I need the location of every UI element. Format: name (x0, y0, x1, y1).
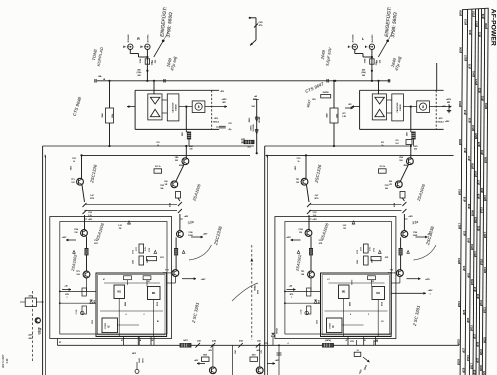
wire output tr outer into module (399, 277, 401, 284)
junction input column at bus (371, 80, 373, 82)
svg-text:2829: 2829 (457, 359, 461, 365)
svg-text:+45V: +45V (28, 333, 34, 336)
resistor 3906 left (202, 355, 210, 362)
label bus wire tag (471, 163, 475, 169)
label bus wire tag (457, 258, 461, 264)
fusible resistor bus a (195, 343, 200, 348)
svg-text:B1: B1 (157, 321, 159, 323)
junction feed at bus (377, 80, 379, 82)
annotation BNS UNIT script (1, 354, 9, 368)
label bus wire tag (477, 193, 481, 198)
svg-text:1701: 1701 (72, 158, 76, 160)
label bus wire tag (467, 203, 471, 208)
annotation pointer line (164, 32, 169, 40)
svg-text:3819: 3819 (457, 258, 461, 264)
svg-text:1341: 1341 (234, 350, 237, 354)
svg-text:+45V: +45V (88, 218, 93, 221)
diode D905 1S1588 (251, 117, 259, 132)
label bus wire tag (462, 309, 466, 314)
wire vas to pre (401, 165, 409, 181)
svg-text:M1: M1 (117, 290, 121, 294)
svg-text:1k: 1k (73, 161, 75, 163)
label bus wire tag (480, 95, 484, 100)
wire module internal h-bus (100, 310, 163, 312)
cascode stage box (392, 94, 404, 121)
label bus wire tag (471, 71, 475, 77)
junction vas at y146 (185, 145, 187, 147)
wire box feed b (59, 302, 96, 304)
svg-text:2809: 2809 (458, 139, 462, 145)
label bus wire tag (475, 21, 479, 27)
wire box feed a (284, 291, 321, 293)
label bus wire tag (473, 251, 477, 257)
junction drop right (259, 344, 261, 346)
svg-text:2829: 2829 (482, 371, 486, 375)
svg-text:150: 150 (74, 232, 77, 234)
svg-text:+45V: +45V (221, 98, 227, 101)
svg-text:OT101: OT101 (330, 323, 332, 329)
wire bus line 2 (465, 9, 468, 375)
power module M101 box (96, 273, 167, 337)
capacitor right channel extra (327, 79, 328, 82)
resistor 2957 1k below ic (407, 129, 416, 145)
label GTS TW (38, 327, 42, 335)
junction input column mid (371, 70, 373, 72)
ground triangle inner (297, 250, 300, 253)
arrow +45V below output (182, 278, 206, 281)
svg-text:C-102: C-102 (76, 310, 78, 315)
wire link y204 (85, 203, 178, 205)
label bus wire tag (482, 371, 486, 375)
svg-text:IN4756: IN4756 (323, 91, 329, 94)
connector jack J303 (141, 44, 150, 49)
wire module internal ic link (118, 324, 140, 326)
svg-text:MTS/4: MTS/4 (276, 328, 279, 333)
wire far-left link a (20, 301, 25, 303)
wire main rail vertical (264, 146, 266, 375)
svg-text:4143: 4143 (239, 340, 243, 343)
label bus wire tag (462, 367, 466, 372)
arrow +45 in box (62, 285, 71, 291)
fusible resistor outer a (178, 202, 182, 206)
wire feed down to right ic box corner (436, 63, 438, 90)
svg-text:7W: 7W (343, 228, 346, 230)
fusible resistor inner b (307, 210, 311, 214)
svg-text:D718: D718 (157, 302, 159, 306)
wire diode chain to line (256, 99, 258, 153)
svg-text:3841: 3841 (479, 349, 483, 355)
wire feedback line y146 (43, 145, 254, 147)
svg-text:+B: +B (139, 340, 142, 342)
svg-text:+45V: +45V (408, 215, 413, 218)
svg-text:MTS: MTS (315, 198, 320, 200)
svg-text:3805: 3805 (471, 163, 475, 169)
diode MTS4 center (271, 328, 278, 336)
transistor relay driver left (210, 367, 217, 374)
label bus wire tag (474, 171, 478, 177)
svg-text:1706: 1706 (188, 232, 192, 234)
node arrow bias (250, 40, 256, 46)
svg-text:160Ω: 160Ω (374, 341, 379, 343)
svg-text:CTS 9648: CTS 9648 (72, 96, 83, 117)
svg-text:VR: VR (165, 184, 168, 186)
junction ic output node (185, 106, 187, 108)
wire module leads down a (123, 337, 125, 346)
svg-text:3805: 3805 (459, 10, 463, 16)
label bus wire tag (474, 79, 478, 85)
svg-text:211: 211 (395, 140, 398, 142)
resistor horizontal mid (147, 257, 157, 261)
transistor relay driver right (256, 367, 263, 374)
svg-text:819: 819 (463, 196, 467, 201)
label bus wire tag (458, 139, 462, 145)
svg-text:R: R (137, 37, 140, 41)
transistor Q215 output (388, 270, 404, 277)
label 6855 (295, 165, 297, 170)
label bus wire tag (467, 117, 471, 122)
label bus wire tag (476, 225, 480, 230)
svg-text:IC: IC (108, 325, 111, 328)
svg-text:1717(4): 1717(4) (39, 328, 42, 335)
wire module internal vertical a (351, 280, 353, 285)
wire left box drop (56, 339, 58, 346)
fusible resistor inner b (83, 210, 87, 214)
svg-text:3815: 3815 (470, 325, 474, 331)
wire input column (371, 57, 373, 81)
svg-text:1: 1 (67, 297, 68, 299)
label bus wire tag (459, 10, 463, 16)
svg-text:+45V: +45V (445, 120, 450, 123)
svg-text:835: 835 (467, 117, 471, 122)
svg-text:3825: 3825 (457, 339, 461, 345)
wire center drop (232, 345, 234, 375)
resistor 2957 1k below ic (182, 129, 191, 145)
svg-text:33a: 33a (412, 220, 419, 226)
label bus wire tag (477, 87, 481, 92)
svg-text:3819: 3819 (475, 21, 479, 27)
svg-text:45V: 45V (266, 154, 269, 158)
resistor below pre-driver (176, 192, 181, 199)
annotation EINGEFUGT (383, 6, 399, 38)
resistor 3798 560 (365, 58, 382, 64)
wire left lead x154 (153, 337, 155, 346)
annotation EINGEFUGT (158, 6, 174, 38)
svg-text:7015: 7015 (480, 207, 484, 213)
label bus wire tag (482, 337, 486, 343)
fusible resistor with arrow right (363, 357, 370, 362)
label +45V near diode chain (253, 95, 259, 100)
arrow right of chain (345, 103, 353, 109)
svg-text:47Ω: 47Ω (94, 242, 98, 245)
svg-text:GTS: GTS (261, 349, 263, 353)
resistor 1777 4.7k (361, 244, 372, 253)
svg-text:0.22: 0.22 (343, 225, 347, 227)
resistor on module top b (143, 276, 151, 280)
svg-text:3825: 3825 (474, 133, 478, 139)
svg-text:VR4: VR4 (399, 156, 404, 159)
svg-text:+45V: +45V (203, 233, 208, 236)
svg-text:L: L (362, 37, 364, 41)
label bus wire tag (470, 325, 474, 331)
svg-text:45V: 45V (348, 103, 352, 106)
svg-text:MTS: MTS (143, 358, 145, 363)
svg-text:829: 829 (462, 367, 466, 372)
svg-text:500: 500 (175, 160, 178, 162)
svg-text:2 SC 3281: 2 SC 3281 (191, 301, 201, 324)
resistor chain in box (82, 288, 86, 314)
node switch top dot (162, 40, 165, 43)
svg-text:M1: M1 (152, 291, 156, 295)
wire inner column to driver (308, 215, 310, 230)
svg-text:6855: 6855 (71, 165, 73, 170)
svg-text:6-98: 6-98 (6, 358, 9, 363)
capacitor tone-coupling left (95, 79, 96, 82)
svg-text:823: 823 (477, 87, 481, 92)
switch muting arm (154, 41, 163, 57)
transistor Q107 output (76, 271, 90, 278)
junction feed at bus (153, 80, 155, 82)
resistor on module top b (368, 276, 376, 280)
label bus wire tag (478, 31, 482, 36)
wire diode chain top tick (253, 98, 257, 100)
svg-text:1S1588: 1S1588 (253, 124, 255, 132)
connector jack J302 (124, 44, 133, 49)
label HOGER (241, 137, 245, 142)
label 400 10k (361, 69, 366, 78)
svg-text:56k: 56k (385, 188, 388, 190)
wire input feed into box from bus (153, 81, 155, 94)
svg-text:0.22: 0.22 (118, 225, 122, 227)
label bus wire tag (463, 109, 467, 114)
op-amp triangle up (150, 109, 160, 116)
svg-text:2837: 2837 (463, 55, 467, 61)
diode bias 1S1815 (90, 300, 96, 304)
wire bus line 4 (473, 9, 476, 375)
svg-text:3833: 3833 (473, 217, 477, 223)
label bus wire tag (470, 244, 474, 250)
wire link y210 (85, 210, 178, 212)
capacitor C05 input (388, 79, 389, 82)
svg-text:3798: 3798 (365, 58, 367, 63)
svg-text:2817: 2817 (470, 363, 474, 369)
warning triangle mid (378, 250, 381, 253)
svg-text:100Ω: 100Ω (188, 235, 193, 237)
transistor Q113 driver (177, 231, 194, 238)
label +45V 45V far left (28, 333, 34, 339)
wire vas to pre (176, 165, 184, 181)
label bus wire tag (483, 232, 487, 238)
svg-text:825: 825 (462, 309, 466, 314)
label bus wire tag (476, 357, 480, 362)
svg-text:8: 8 (198, 105, 200, 109)
fusible resistor inner a (307, 203, 311, 207)
svg-text:2821: 2821 (474, 79, 478, 85)
fusible resistor bus b (211, 343, 216, 348)
emitter resistor inner (309, 248, 312, 255)
svg-text:1705: 1705 (385, 185, 389, 187)
svg-text:3815: 3815 (458, 189, 462, 195)
svg-text:1702: 1702 (313, 212, 317, 214)
label 471 13E (342, 112, 347, 118)
svg-text:821: 821 (478, 31, 482, 36)
svg-text:D906: D906 (249, 118, 251, 123)
label bus wire tag (480, 207, 484, 213)
wire emitter res to output tr (310, 255, 312, 271)
wire 100k resistor drop (109, 81, 111, 108)
label bus wire tag (479, 300, 483, 306)
junction diode chain bottom (256, 152, 258, 154)
connector jack J301 (348, 44, 357, 49)
arrow +45 in box (287, 285, 296, 291)
svg-text:STAGE: STAGE (174, 103, 177, 110)
svg-text:1777: 1777 (361, 247, 363, 251)
arrow +45V inner left (62, 236, 76, 241)
svg-text:9648A: 9648A (254, 285, 257, 291)
label bus wire tag (468, 29, 472, 34)
label bus wire tag (473, 286, 477, 291)
svg-text:B688: B688 (125, 302, 127, 306)
op-amp triangle down (150, 97, 160, 104)
svg-text:330: 330 (414, 149, 417, 151)
svg-text:302 AUX: 302 AUX (127, 34, 130, 43)
svg-text:1703: 1703 (319, 240, 323, 242)
svg-text:815: 815 (463, 109, 467, 114)
wire module leads down a (347, 337, 349, 346)
wire bus line 5 (476, 9, 479, 375)
svg-text:TP3: TP3 (76, 271, 79, 273)
label 6855 (71, 165, 73, 170)
svg-text:+45V: +45V (425, 278, 430, 281)
svg-text:+45V: +45V (208, 349, 213, 352)
wire center diode drop (272, 337, 274, 346)
label +45V tick outer (404, 215, 413, 219)
svg-text:56k: 56k (161, 188, 164, 190)
diode D906 (255, 130, 258, 134)
pcb outline outer box (275, 217, 396, 339)
resistor 3798 560 (140, 58, 157, 64)
label bus wire tag (466, 355, 470, 361)
svg-text:2821: 2821 (483, 307, 487, 313)
wire module internal vertical b (146, 280, 148, 287)
svg-text:150: 150 (299, 232, 302, 234)
diode mid link (128, 221, 131, 224)
svg-text:3302: 3302 (92, 320, 94, 324)
label bus wire tag (474, 133, 478, 139)
svg-text:302: 302 (247, 147, 251, 149)
transistor Q209 vas (399, 156, 413, 165)
switch muting arm (378, 41, 387, 57)
svg-text:74: 74 (357, 349, 359, 352)
wire rail inner vertical (44, 155, 46, 375)
svg-text:AF-POWER: AF-POWER (489, 9, 496, 46)
svg-text:4148: 4148 (169, 203, 172, 207)
junction ic output node (410, 106, 412, 108)
dashed channel divider (251, 245, 253, 340)
junction input node (146, 56, 148, 58)
svg-text:827: 827 (462, 347, 466, 352)
svg-text:IC: IC (332, 325, 335, 328)
svg-text:+45V: +45V (201, 278, 206, 281)
capacitor C-102 circle (301, 310, 309, 315)
label bus wire tag (463, 196, 467, 201)
label bus wire tag (468, 63, 472, 68)
wire bias chain vertical (255, 18, 257, 40)
label bus wire tag (472, 369, 476, 374)
svg-text:TP3: TP3 (301, 271, 304, 273)
wire emitter to output outer (400, 255, 402, 270)
svg-text:2984: 2984 (326, 112, 329, 117)
wire line y155 (82, 154, 251, 156)
svg-text:9647: 9647 (306, 98, 312, 108)
power transistor Q119 package (148, 287, 161, 300)
wire left lead x138 (137, 337, 139, 346)
resistor chain in box (307, 288, 311, 314)
op-amp inner stage box (148, 94, 162, 120)
wire ic input arrow (352, 106, 360, 108)
fusible resistor bus c (238, 343, 243, 348)
svg-text:47μ adj: 47μ adj (394, 55, 403, 72)
svg-text:1711: 1711 (241, 143, 245, 145)
svg-text:4.7: 4.7 (103, 278, 105, 281)
wire module leads down c (150, 337, 152, 346)
transistor Q213 driver (401, 231, 418, 238)
label module pins (126, 313, 160, 323)
junction dot bias top (249, 17, 251, 19)
svg-text:4.7k: 4.7k (369, 247, 372, 251)
svg-text:3906: 3906 (203, 355, 207, 357)
label module pins (350, 313, 384, 323)
wire driver to output tr (310, 236, 312, 248)
svg-text:CASCODE: CASCODE (171, 102, 174, 113)
arrow +45V below output (407, 278, 431, 281)
svg-text:120k: 120k (357, 260, 359, 264)
label +45V tick outer (180, 215, 189, 219)
resistor IN4756 top right (321, 91, 331, 98)
label bus wire tag (476, 293, 480, 298)
wire module internal m1a down (343, 299, 345, 337)
wire vas drop from y146 (185, 146, 187, 158)
current source box with symbol (192, 101, 205, 113)
svg-text:837: 837 (476, 357, 480, 362)
svg-text:47p: 47p (228, 128, 232, 131)
label bus wire tag (457, 359, 461, 365)
wire output tr outer into module (174, 277, 176, 284)
svg-text:5,6μF 63V: 5,6μF 63V (324, 47, 332, 67)
wire emitter to output outer (175, 255, 177, 270)
label bus wire tag (480, 149, 484, 154)
svg-text:(10k): (10k) (361, 72, 366, 74)
label bus wire tag (483, 307, 487, 313)
svg-text:3815: 3815 (483, 195, 487, 201)
svg-text:1775: 1775 (374, 248, 376, 252)
warning triangle mid (154, 250, 157, 253)
annotation script curve left (232, 283, 258, 301)
wire ic output down (410, 107, 412, 130)
svg-text:3804: 3804 (484, 103, 488, 109)
wire outer column upper (178, 198, 180, 201)
wire outer column to driver (179, 214, 181, 231)
wire inner column top (81, 155, 83, 178)
svg-text:47Ω: 47Ω (319, 242, 323, 245)
svg-text:2809: 2809 (470, 279, 474, 285)
svg-text:-45V: -45V (214, 117, 219, 120)
arrow on divider a (250, 258, 253, 262)
svg-text:(10k): (10k) (137, 72, 142, 74)
svg-text:2.2k: 2.2k (313, 215, 317, 217)
annotation TONE KOPPLAD script (91, 47, 104, 67)
arrow +45V right module out (391, 289, 433, 296)
svg-text:4558: 4558 (404, 164, 408, 167)
